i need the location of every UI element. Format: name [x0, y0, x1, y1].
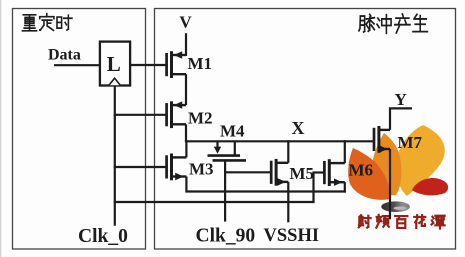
right box 脉冲产生 frame	[155, 9, 456, 250]
latch clock triangle	[109, 78, 120, 85]
wire M6 gate drop vertical	[312, 173, 314, 204]
svg-text:M7: M7	[398, 133, 423, 152]
svg-text:Data: Data	[48, 47, 81, 64]
transistor M5 (NMOS)	[271, 159, 288, 186]
svg-text:X: X	[292, 118, 305, 138]
wire V supply	[185, 33, 187, 56]
wire L output to M1 gate	[130, 64, 166, 66]
transistor M3 (NMOS)	[167, 154, 187, 181]
wire Clk_90 branch to M5 gate	[224, 171, 271, 173]
wire M6 source to VSS rail	[344, 182, 346, 192]
svg-text:Clk_0: Clk_0	[78, 226, 128, 247]
title 脉冲产生	[359, 14, 428, 33]
svg-text:V: V	[179, 12, 192, 31]
wire M2 drain to node X	[185, 124, 187, 142]
wire M3 drain to node X	[185, 140, 187, 157]
node X wire	[185, 140, 373, 142]
svg-text:M6: M6	[349, 161, 374, 180]
wire M7 source down	[389, 149, 391, 219]
logo text 射频百花潭	[359, 215, 445, 229]
logo flame petal yellow	[396, 125, 445, 196]
transistor M2 (PMOS)	[167, 101, 186, 128]
transistor M6 (NMOS)	[312, 159, 344, 186]
wire M4 gate / Clk_90 vertical	[224, 160, 226, 221]
transistor M1 (PMOS)	[167, 51, 186, 78]
wire M3 source to VSS rail	[186, 177, 346, 192]
svg-text:M3: M3	[189, 160, 214, 179]
wire Clk_0 tap to M3 gate	[114, 166, 167, 168]
svg-text:M2: M2	[188, 108, 213, 127]
wire M7 drain up to Y	[390, 108, 412, 129]
transistor M7 (NMOS)	[374, 126, 390, 153]
svg-text:M1: M1	[188, 54, 213, 73]
svg-text:M4: M4	[220, 122, 245, 141]
svg-text:M5: M5	[290, 164, 315, 183]
title 重定时	[22, 14, 72, 31]
left box 重定时 frame	[13, 9, 146, 250]
latch L box	[100, 42, 130, 86]
wire M6 drain to node X	[344, 140, 346, 163]
wire Clk_0 vertical	[114, 86, 116, 226]
svg-text:VSSHI: VSSHI	[264, 226, 320, 246]
transistor M4 (MOS cap, rotated)	[208, 141, 247, 160]
faint left scan edge	[0, 0, 2, 257]
logo flame petal middle orange	[372, 133, 402, 195]
wire M5 drain to node X	[287, 140, 289, 163]
svg-text:L: L	[107, 52, 121, 76]
wire Clk_0 rail to M6 gate drop	[114, 201, 314, 203]
wire Data input	[54, 64, 100, 66]
wire M1 drain to M2 source	[185, 74, 187, 105]
logo flame petal left orange	[348, 148, 390, 200]
svg-text:Clk_90: Clk_90	[196, 226, 256, 247]
wire Clk_0 tap to M2 gate	[114, 114, 167, 116]
svg-text:Y: Y	[395, 90, 407, 109]
logo gray disc	[381, 201, 410, 212]
wire M5 source down to VSSHI	[287, 182, 289, 222]
logo red swoosh	[412, 178, 448, 195]
